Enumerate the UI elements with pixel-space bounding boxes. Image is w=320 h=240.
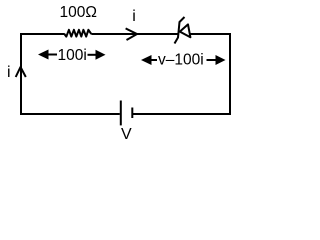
voltage arrow span 100i bbox=[38, 50, 106, 60]
resistor R 100ohm bbox=[64, 30, 91, 37]
battery V long plate bbox=[120, 101, 122, 126]
svg-text:V: V bbox=[121, 126, 132, 139]
wire top-right segment bbox=[190, 33, 231, 35]
current arrow i on top wire bbox=[126, 28, 137, 40]
wire left side bbox=[20, 33, 22, 115]
svg-text:100Ω: 100Ω bbox=[60, 4, 97, 21]
svg-text:i: i bbox=[132, 8, 136, 25]
wire bottom-left segment bbox=[21, 113, 120, 115]
svg-text:v–100i: v–100i bbox=[158, 52, 204, 69]
wire top-left segment bbox=[21, 33, 64, 35]
svg-text:100i: 100i bbox=[58, 47, 87, 64]
wire top-middle segment bbox=[91, 33, 179, 35]
wire right side bbox=[229, 33, 231, 115]
current arrow i on left wire bbox=[16, 67, 26, 77]
zener diode D1 bbox=[175, 17, 191, 44]
voltage arrow span v-100i bbox=[141, 55, 226, 65]
svg-text:i: i bbox=[7, 64, 11, 81]
battery V short plate bbox=[131, 108, 133, 119]
wire bottom-right segment bbox=[132, 113, 231, 115]
